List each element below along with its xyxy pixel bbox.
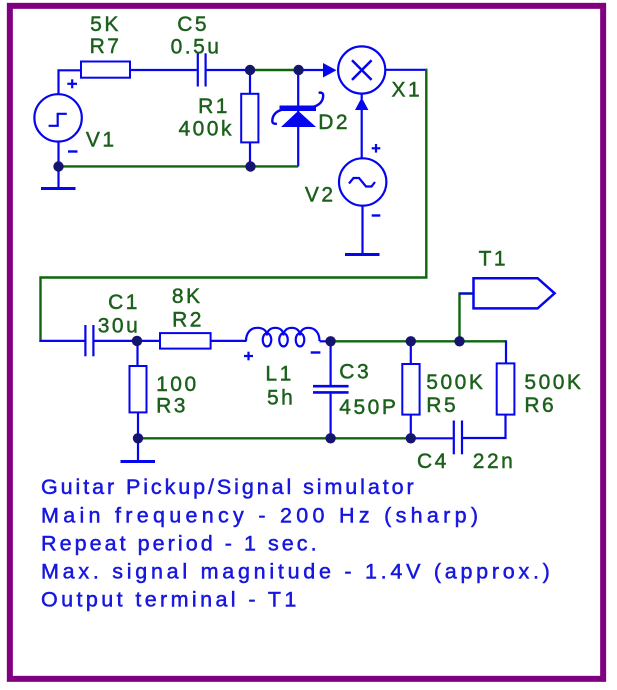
- wire R2 to L1: [211, 340, 247, 342]
- wire C1 to node: [94, 340, 137, 342]
- svg-text:5h: 5h: [267, 387, 295, 410]
- svg-text:R7: R7: [90, 35, 122, 58]
- wire right net down: [41, 69, 427, 342]
- node L1/C3: [325, 336, 335, 346]
- wire C5 to node: [207, 69, 250, 71]
- svg-text:22n: 22n: [473, 450, 516, 473]
- svg-text:V1: V1: [86, 128, 117, 151]
- wire arrow to V2: [361, 110, 363, 158]
- capacitor C4: [454, 421, 462, 455]
- wire T1 stub: [460, 292, 474, 294]
- L1 minus marker: [311, 351, 321, 353]
- svg-text:Main frequency - 200 Hz (sharp: Main frequency - 200 Hz (sharp): [41, 503, 482, 527]
- svg-text:R2: R2: [172, 308, 204, 331]
- resistor R1: [241, 72, 258, 167]
- multiplier X1: [338, 46, 385, 93]
- V2 plus marker: [372, 144, 381, 153]
- voltage source V2: [339, 158, 386, 205]
- node R1 bottom: [245, 161, 255, 171]
- svg-text:R1: R1: [198, 95, 230, 118]
- wire node to X1 arrow: [299, 69, 324, 71]
- capacitor C1: [85, 325, 93, 356]
- svg-text:C4: C4: [417, 450, 449, 473]
- wire node to node (net): [250, 69, 299, 71]
- node V1 bottom: [53, 161, 63, 171]
- svg-text:R6: R6: [524, 394, 556, 417]
- mid rail net: [331, 340, 506, 342]
- L1 plus marker: [244, 352, 253, 361]
- bottom rail of top circuit: [59, 165, 299, 167]
- svg-text:30u: 30u: [98, 314, 141, 337]
- svg-text:450P: 450P: [339, 396, 398, 419]
- svg-text:D2: D2: [318, 111, 350, 134]
- svg-text:R5: R5: [426, 394, 458, 417]
- svg-text:C5: C5: [177, 13, 209, 36]
- node C1/R2/R3: [132, 336, 142, 346]
- node C5/R1: [245, 65, 255, 75]
- capacitor C5: [198, 53, 206, 86]
- svg-text:500K: 500K: [426, 371, 485, 394]
- resistor R3: [130, 341, 147, 438]
- X1 input arrow: [323, 63, 337, 78]
- node R5 top: [406, 336, 416, 346]
- wire X1 output: [385, 69, 427, 71]
- wire node to R2: [137, 340, 160, 342]
- svg-text:Guitar Pickup/Signal simulator: Guitar Pickup/Signal simulator: [41, 475, 417, 499]
- svg-text:100: 100: [156, 373, 199, 396]
- svg-text:500K: 500K: [524, 371, 583, 394]
- voltage source V1: [34, 94, 81, 141]
- svg-text:C3: C3: [339, 360, 371, 383]
- svg-text:X1: X1: [392, 78, 423, 101]
- svg-text:V2: V2: [305, 184, 336, 207]
- node C3 bottom: [325, 433, 335, 443]
- svg-text:0.5u: 0.5u: [171, 36, 222, 59]
- wire to C1: [39, 340, 84, 342]
- zener diode D2: [272, 72, 323, 167]
- inductor L1: [246, 328, 320, 347]
- wire R7 to C5: [130, 69, 197, 71]
- wire node to C4: [411, 437, 453, 439]
- svg-text:L1: L1: [265, 363, 293, 386]
- wire V1 top lead: [59, 70, 82, 94]
- svg-text:Output terminal - T1: Output terminal - T1: [41, 588, 300, 612]
- resistor R5: [402, 341, 419, 438]
- V2 minus marker: [372, 214, 381, 216]
- V1 lower lead: [57, 142, 59, 167]
- wire L1 to node: [320, 340, 331, 342]
- svg-text:C1: C1: [108, 291, 140, 314]
- X1 lower input arrow: [361, 94, 363, 99]
- ground V1: [41, 167, 76, 189]
- terminal T1: [474, 278, 555, 308]
- node R3 bottom: [133, 433, 143, 443]
- V2 lower lead: [361, 206, 363, 254]
- svg-text:5K: 5K: [90, 13, 121, 36]
- bottom rail net: [138, 437, 411, 439]
- node dots: [53, 65, 464, 444]
- svg-text:8K: 8K: [172, 285, 203, 308]
- svg-text:Repeat period - 1 sec.: Repeat period - 1 sec.: [41, 531, 320, 555]
- ground R3: [121, 438, 156, 461]
- resistor R6: [463, 340, 514, 438]
- resistor R7: [81, 62, 130, 78]
- ground V2: [345, 253, 380, 256]
- svg-text:R3: R3: [156, 395, 188, 418]
- wire T1 net: [460, 294, 474, 342]
- capacitor C3: [313, 341, 349, 438]
- node R5 bottom: [406, 433, 416, 443]
- node T1: [454, 336, 464, 346]
- svg-text:Max. signal magnitude - 1.4V (: Max. signal magnitude - 1.4V (approx.): [41, 560, 554, 584]
- V1 minus marker: [68, 150, 78, 152]
- svg-text:400k: 400k: [178, 118, 234, 141]
- node D2 top: [293, 65, 303, 75]
- V1 plus marker: [67, 79, 77, 88]
- resistor R2: [160, 333, 211, 349]
- svg-text:T1: T1: [479, 247, 509, 270]
